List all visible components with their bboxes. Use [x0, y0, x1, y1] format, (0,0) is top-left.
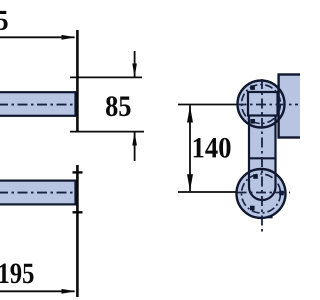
85 bottom extension line — [70, 131, 144, 133]
bolt square top SW — [250, 119, 255, 124]
grip joint line — [249, 157, 276, 159]
extension line upper (x=77.4) — [76, 30, 79, 132]
mounting plate (square, front view) — [248, 92, 278, 116]
lower post bar (side view) — [0, 181, 76, 205]
bottom rosette circle fill — [237, 169, 286, 218]
top rosette horizontal centerline — [237, 104, 299, 106]
top dimension text 5 — [0, 11, 8, 30]
140 dimension line — [189, 106, 191, 192]
85 dimension line top leader — [134, 51, 136, 77]
grip bar (front view) with rounded lower end — [249, 114, 276, 200]
bolt square bottom SW — [250, 206, 255, 211]
upper post centerline — [0, 104, 76, 106]
bottom dimension arrow — [62, 289, 76, 294]
85 dimension line bottom leader — [134, 132, 136, 161]
top rosette circle fill — [238, 81, 285, 128]
bottom dimension line 195 — [0, 290, 75, 292]
top dimension line — [0, 36, 75, 38]
bolt mark tick lower — [73, 211, 83, 213]
upper post bar (side view) — [0, 92, 76, 116]
140 bottom extension line — [178, 191, 237, 193]
bolt square bottom NW — [253, 174, 258, 179]
top dimension arrow — [62, 35, 76, 40]
dimension text 140 — [194, 138, 231, 158]
dimension text 195 — [0, 264, 33, 284]
top rosette outline — [238, 81, 285, 128]
door plate (edge view, cut off right) — [279, 75, 306, 138]
140 top arrow (points up) — [187, 106, 193, 123]
bottom rosette horizontal centerline — [237, 192, 291, 194]
bolt dash bottom S — [268, 216, 273, 219]
bottom rosette outline — [237, 169, 286, 218]
85 top extension line — [70, 76, 142, 78]
top bolt circle (dash-dot) — [242, 85, 281, 124]
dimension text 85 — [106, 96, 130, 116]
bolt square bottom E — [279, 191, 284, 196]
extension line lower (x=77.4 for 195) — [76, 165, 79, 297]
lower post centerline — [0, 192, 76, 194]
vertical centerline of front view — [261, 79, 263, 232]
bolt mark tick upper — [73, 171, 83, 173]
140 top extension line — [178, 104, 237, 106]
85 top arrow (points down) — [132, 64, 137, 78]
140 bottom arrow (points down) — [187, 174, 193, 191]
85 bottom arrow (points up) — [132, 132, 137, 146]
bottom bolt circle (dash-dot) — [242, 174, 281, 213]
bolt square top NW — [250, 85, 255, 90]
